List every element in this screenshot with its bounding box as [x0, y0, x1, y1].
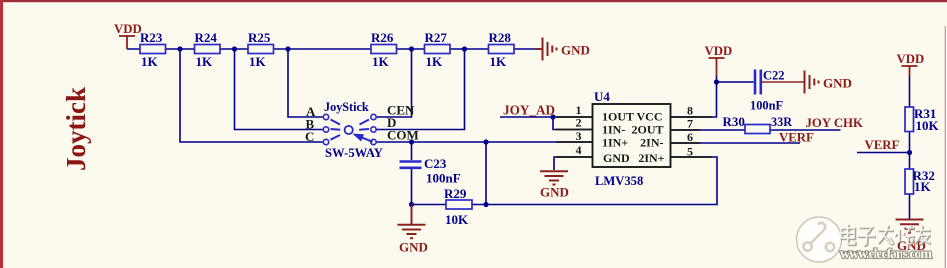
- svg-text:1K: 1K: [372, 54, 390, 69]
- svg-text:1OUT: 1OUT: [602, 110, 634, 124]
- pin 4 stub: [556, 156, 593, 158]
- wire CEN row up: [377, 49, 412, 117]
- resistor R27: [425, 45, 451, 54]
- svg-text:R24: R24: [195, 30, 218, 45]
- resistor R24: [195, 45, 221, 54]
- contact COM: [371, 139, 376, 144]
- svg-text:2IN+: 2IN+: [638, 151, 664, 165]
- power VDD1: [119, 36, 135, 49]
- switch center: [345, 126, 353, 134]
- resistor R28: [489, 45, 515, 54]
- svg-text:2: 2: [576, 116, 582, 130]
- junction after R27: [462, 46, 467, 51]
- svg-text:1IN-: 1IN-: [602, 123, 625, 137]
- sheet border right: [945, 26, 946, 268]
- wire C23 drop: [411, 142, 413, 160]
- svg-text:Joytick: Joytick: [61, 87, 91, 171]
- junction COM-branch: [483, 139, 488, 144]
- svg-text:100nF: 100nF: [750, 99, 783, 113]
- contact CEN: [371, 114, 376, 119]
- pin 7 stub: [671, 129, 701, 131]
- dash CEN: [360, 120, 370, 125]
- watermark logo circle: [797, 217, 842, 262]
- resistor R32: [905, 169, 914, 194]
- svg-text:6: 6: [687, 130, 693, 144]
- junction after R23: [177, 46, 182, 51]
- dash B: [331, 128, 341, 131]
- svg-text:R26: R26: [371, 30, 394, 45]
- junction R29 net: [483, 202, 488, 207]
- svg-text:1K: 1K: [249, 54, 267, 69]
- pin 1 stub: [556, 116, 593, 118]
- contact D: [371, 127, 376, 132]
- dash C: [331, 135, 341, 140]
- junction after R24: [232, 46, 237, 51]
- svg-text:100nF: 100nF: [426, 171, 461, 186]
- svg-text:R28: R28: [489, 30, 512, 45]
- pin 3 stub: [556, 141, 593, 143]
- wire pin7 to R30: [671, 129, 746, 131]
- svg-text:JOY CHK: JOY CHK: [806, 116, 864, 130]
- svg-text:2OUT: 2OUT: [631, 123, 663, 137]
- wire pin4 to gnd: [554, 157, 593, 170]
- wire top rail: [127, 48, 536, 50]
- svg-text:VCC: VCC: [637, 110, 663, 124]
- dash A: [331, 120, 341, 125]
- resistor R30: [745, 125, 770, 134]
- wiper arrow: [354, 134, 373, 142]
- svg-text:VDD: VDD: [705, 44, 733, 58]
- svg-text:GND: GND: [603, 151, 630, 165]
- svg-text:COM: COM: [387, 128, 419, 143]
- junction after R26: [409, 46, 414, 51]
- wire R29 right run to pin5: [472, 157, 717, 205]
- wire R31 to junction: [909, 132, 911, 170]
- svg-text:VDD: VDD: [897, 52, 925, 66]
- wire vertical to B row: [235, 49, 323, 130]
- svg-text:JOY_AD: JOY_AD: [503, 103, 555, 118]
- svg-text:1K: 1K: [196, 54, 214, 69]
- SWITCH SW-5WAY: [323, 114, 376, 144]
- ground GND2 (below C23): [398, 205, 426, 239]
- wire R30 to JOY CHK: [770, 129, 841, 131]
- svg-text:8: 8: [687, 104, 693, 118]
- wire vertical to C row: [180, 49, 323, 142]
- svg-text:VERF: VERF: [865, 138, 900, 152]
- contact B: [323, 127, 328, 132]
- svg-text:VDD: VDD: [114, 22, 142, 36]
- wire VERF2: [857, 152, 910, 154]
- wire C22 branch: [717, 81, 754, 83]
- svg-text:R30: R30: [723, 114, 745, 129]
- wire D row up: [377, 49, 465, 130]
- svg-text:10K: 10K: [445, 212, 469, 227]
- watermark brand glyphs: [842, 225, 931, 246]
- svg-text:1K: 1K: [914, 179, 932, 194]
- svg-text:GND: GND: [399, 240, 428, 255]
- wire VDD3 down to R31: [909, 75, 911, 107]
- junction COM-C23: [409, 139, 414, 144]
- svg-text:10K: 10K: [916, 118, 940, 133]
- svg-text:1IN+: 1IN+: [602, 136, 628, 150]
- NET-LABELS-MAROON: [503, 103, 900, 153]
- svg-text:C: C: [305, 129, 314, 144]
- wire COM branch down: [485, 142, 487, 205]
- op-amp U4: [556, 103, 712, 167]
- dash D: [359, 128, 369, 131]
- junction VDD2-C22: [714, 79, 719, 84]
- ground GND5 (below R32): [896, 220, 924, 233]
- wire JOY_AD: [500, 116, 593, 118]
- svg-text:C22: C22: [763, 69, 785, 83]
- svg-text:3: 3: [576, 129, 582, 143]
- power VDD2: [709, 58, 725, 76]
- power VDD3: [902, 66, 918, 76]
- wire COM row to pin3: [377, 141, 593, 143]
- svg-text:7: 7: [687, 117, 693, 131]
- svg-text:GND: GND: [561, 43, 590, 58]
- svg-text:1K: 1K: [490, 54, 508, 69]
- svg-text:5: 5: [687, 145, 693, 159]
- svg-text:GND: GND: [823, 76, 852, 91]
- svg-text:C23: C23: [424, 156, 447, 171]
- junction gnd node: [409, 202, 414, 207]
- capacitor C23: [400, 162, 422, 168]
- sheet border left: [0, 0, 3, 268]
- wire pin6 VERF stub: [671, 142, 801, 144]
- svg-text:2IN-: 2IN-: [640, 136, 663, 150]
- svg-text:JoyStick: JoyStick: [324, 100, 369, 114]
- pin 2 stub: [556, 129, 593, 131]
- resistor R25: [248, 45, 274, 54]
- pin 5 stub: [671, 156, 713, 158]
- svg-text:R29: R29: [444, 186, 467, 201]
- ground GND3 (below U4 pin4): [540, 171, 568, 184]
- wire gnd node to R29: [412, 204, 447, 206]
- sheet border top: [0, 0, 947, 2]
- wire C23 bottom to gnd node: [411, 169, 413, 205]
- wire R32 to gnd: [909, 194, 911, 219]
- switch pin names: [305, 103, 419, 145]
- svg-text:U4: U4: [594, 89, 610, 104]
- svg-text:4: 4: [576, 143, 582, 157]
- svg-text:LMV358: LMV358: [595, 174, 643, 188]
- resistor R23: [140, 45, 166, 54]
- svg-text:GND: GND: [540, 185, 569, 200]
- wire pin8 to VDD: [671, 75, 717, 117]
- svg-text:1K: 1K: [426, 54, 444, 69]
- U4 body: [593, 104, 671, 167]
- pin 8 stub: [671, 116, 713, 118]
- WATERMARK: [797, 217, 933, 262]
- resistor R29: [446, 200, 472, 209]
- svg-text:33R: 33R: [771, 115, 792, 129]
- RESISTOR-BODIES: [140, 45, 914, 210]
- junction VERF divider: [907, 150, 912, 155]
- svg-text:VERF: VERF: [779, 131, 814, 145]
- svg-text:R23: R23: [140, 30, 163, 45]
- svg-text:www.elecfans.com: www.elecfans.com: [840, 247, 932, 262]
- ground GND4 (right-facing, after C22): [805, 71, 819, 94]
- resistor R26: [371, 45, 397, 54]
- svg-text:1K: 1K: [141, 54, 159, 69]
- pin 6 stub: [671, 142, 701, 144]
- ground GND1 (right-facing, after R28): [536, 38, 557, 61]
- junction after R25: [285, 46, 290, 51]
- wire vertical to A row: [288, 49, 323, 117]
- TEXT-LABELS-BLUE: [140, 30, 940, 227]
- svg-text:SW-5WAY: SW-5WAY: [325, 146, 383, 160]
- junction JOY_AD: [550, 114, 555, 119]
- capacitor C22: [755, 70, 761, 95]
- wire JOY_AD to pin2: [553, 117, 593, 130]
- resistor R31: [905, 107, 914, 132]
- contact A: [323, 114, 328, 119]
- svg-text:R27: R27: [425, 30, 448, 45]
- contact C: [323, 139, 328, 144]
- wire C22 to gnd: [761, 81, 804, 83]
- svg-text:R25: R25: [248, 30, 271, 45]
